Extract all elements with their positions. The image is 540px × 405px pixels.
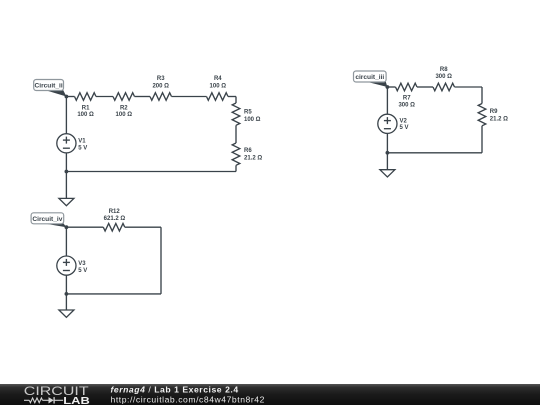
wire xyxy=(387,152,482,154)
wire xyxy=(66,171,236,173)
wire xyxy=(386,87,388,114)
wire xyxy=(66,226,103,228)
wire xyxy=(455,87,483,104)
resistor R3 xyxy=(150,93,171,101)
resistor R1 xyxy=(75,93,96,101)
svg-text:R1: R1 xyxy=(82,106,90,112)
wire xyxy=(387,86,395,88)
svg-text:V2: V2 xyxy=(400,118,408,124)
logo resistor-diode glyph xyxy=(24,397,63,403)
resistor R4 xyxy=(207,93,228,101)
wire xyxy=(228,97,236,104)
footer url xyxy=(111,394,265,404)
svg-text:100 Ω: 100 Ω xyxy=(116,112,133,118)
wire xyxy=(96,96,113,98)
svg-text:Circuit_iv: Circuit_iv xyxy=(32,216,62,223)
svg-text:R9: R9 xyxy=(490,109,498,115)
resistor R9 xyxy=(478,104,486,126)
net label Circuit_iv xyxy=(31,213,66,227)
footer bar xyxy=(0,384,540,405)
wire xyxy=(65,97,67,134)
svg-text:LAB: LAB xyxy=(63,396,89,405)
node Circuit_ii junction xyxy=(65,95,69,99)
svg-text:R12: R12 xyxy=(109,209,121,215)
svg-text:621.2 Ω: 621.2 Ω xyxy=(104,216,126,222)
svg-text:5 V: 5 V xyxy=(78,145,87,151)
svg-text:300 Ω: 300 Ω xyxy=(435,74,452,80)
node bottom junction circuit ii xyxy=(65,170,69,174)
voltage source V2 xyxy=(378,114,397,133)
wire xyxy=(66,293,161,295)
svg-text:R5: R5 xyxy=(244,110,252,116)
svg-text:R6: R6 xyxy=(244,148,252,154)
svg-text:300 Ω: 300 Ω xyxy=(398,102,415,108)
net label Circuit_ii xyxy=(34,80,67,97)
ground xyxy=(59,198,74,205)
wire xyxy=(386,133,388,169)
svg-text:21.2 Ω: 21.2 Ω xyxy=(490,117,508,123)
wire xyxy=(235,125,237,143)
ground xyxy=(59,310,74,317)
svg-text:V1: V1 xyxy=(78,139,86,145)
resistor R6 xyxy=(232,143,240,165)
resistor R5 xyxy=(232,103,240,125)
svg-text:R2: R2 xyxy=(120,106,128,112)
svg-text:100 Ω: 100 Ω xyxy=(77,112,94,118)
svg-text:200 Ω: 200 Ω xyxy=(152,83,169,89)
label R12 621.2 Ω xyxy=(104,209,126,222)
wire xyxy=(65,275,67,310)
svg-text:circuit_iii: circuit_iii xyxy=(355,74,384,81)
node circuit_iii junction xyxy=(386,85,390,89)
label R2 100 Ω xyxy=(116,106,133,119)
node Circuit_iv junction xyxy=(65,225,69,229)
voltage source V3 xyxy=(57,256,76,275)
label R9 21.2 Ω xyxy=(490,109,508,123)
footer title fernag4 / Lab 1 Exercise 2.4 xyxy=(111,384,239,394)
resistor R2 xyxy=(113,93,134,101)
svg-text:Circuit_ii: Circuit_ii xyxy=(34,83,62,90)
svg-text:100 Ω: 100 Ω xyxy=(210,83,227,89)
svg-text:5 V: 5 V xyxy=(78,268,87,274)
svg-text:21.2 Ω: 21.2 Ω xyxy=(244,156,262,162)
label V2 5 V xyxy=(400,118,409,131)
node bottom junction circuit iii xyxy=(386,151,390,155)
ground xyxy=(380,170,395,177)
resistor R8 xyxy=(433,83,454,91)
svg-text:5 V: 5 V xyxy=(400,125,409,131)
svg-text:fernag4 / Lab 1 Exercise 2.4: fernag4 / Lab 1 Exercise 2.4 xyxy=(111,384,239,394)
svg-text:R4: R4 xyxy=(214,76,222,82)
label R3 200 Ω xyxy=(152,76,169,90)
label R7 300 Ω xyxy=(398,96,415,109)
voltage source V1 xyxy=(57,134,76,153)
svg-text:R7: R7 xyxy=(403,96,411,102)
wire xyxy=(66,96,74,98)
label V1 5 V xyxy=(78,139,87,152)
label V3 5 V xyxy=(78,261,87,274)
svg-text:100 Ω: 100 Ω xyxy=(244,117,261,123)
resistor R7 xyxy=(396,83,417,91)
label R6 21.2 Ω xyxy=(244,148,262,162)
wire xyxy=(417,86,433,88)
label R8 300 Ω xyxy=(435,67,452,80)
svg-text:http://circuitlab.com/c84w47bt: http://circuitlab.com/c84w47btn8r42 xyxy=(111,394,265,404)
logo CIRCUIT text xyxy=(24,384,90,398)
resistor R12 xyxy=(103,223,124,231)
svg-text:R8: R8 xyxy=(440,67,448,73)
net label circuit_iii xyxy=(354,71,388,87)
svg-text:R3: R3 xyxy=(157,76,165,82)
label R5 100 Ω xyxy=(244,110,261,123)
wire xyxy=(125,227,161,294)
wire xyxy=(65,153,67,199)
logo LAB text xyxy=(63,396,89,405)
wire xyxy=(481,126,483,153)
label R1 100 Ω xyxy=(77,106,94,119)
wire xyxy=(65,227,67,256)
svg-text:V3: V3 xyxy=(78,261,86,267)
label R4 100 Ω xyxy=(210,76,227,90)
wire xyxy=(135,96,151,98)
node bottom junction circuit iv xyxy=(65,292,69,296)
wire xyxy=(172,96,207,98)
wire xyxy=(235,165,237,171)
